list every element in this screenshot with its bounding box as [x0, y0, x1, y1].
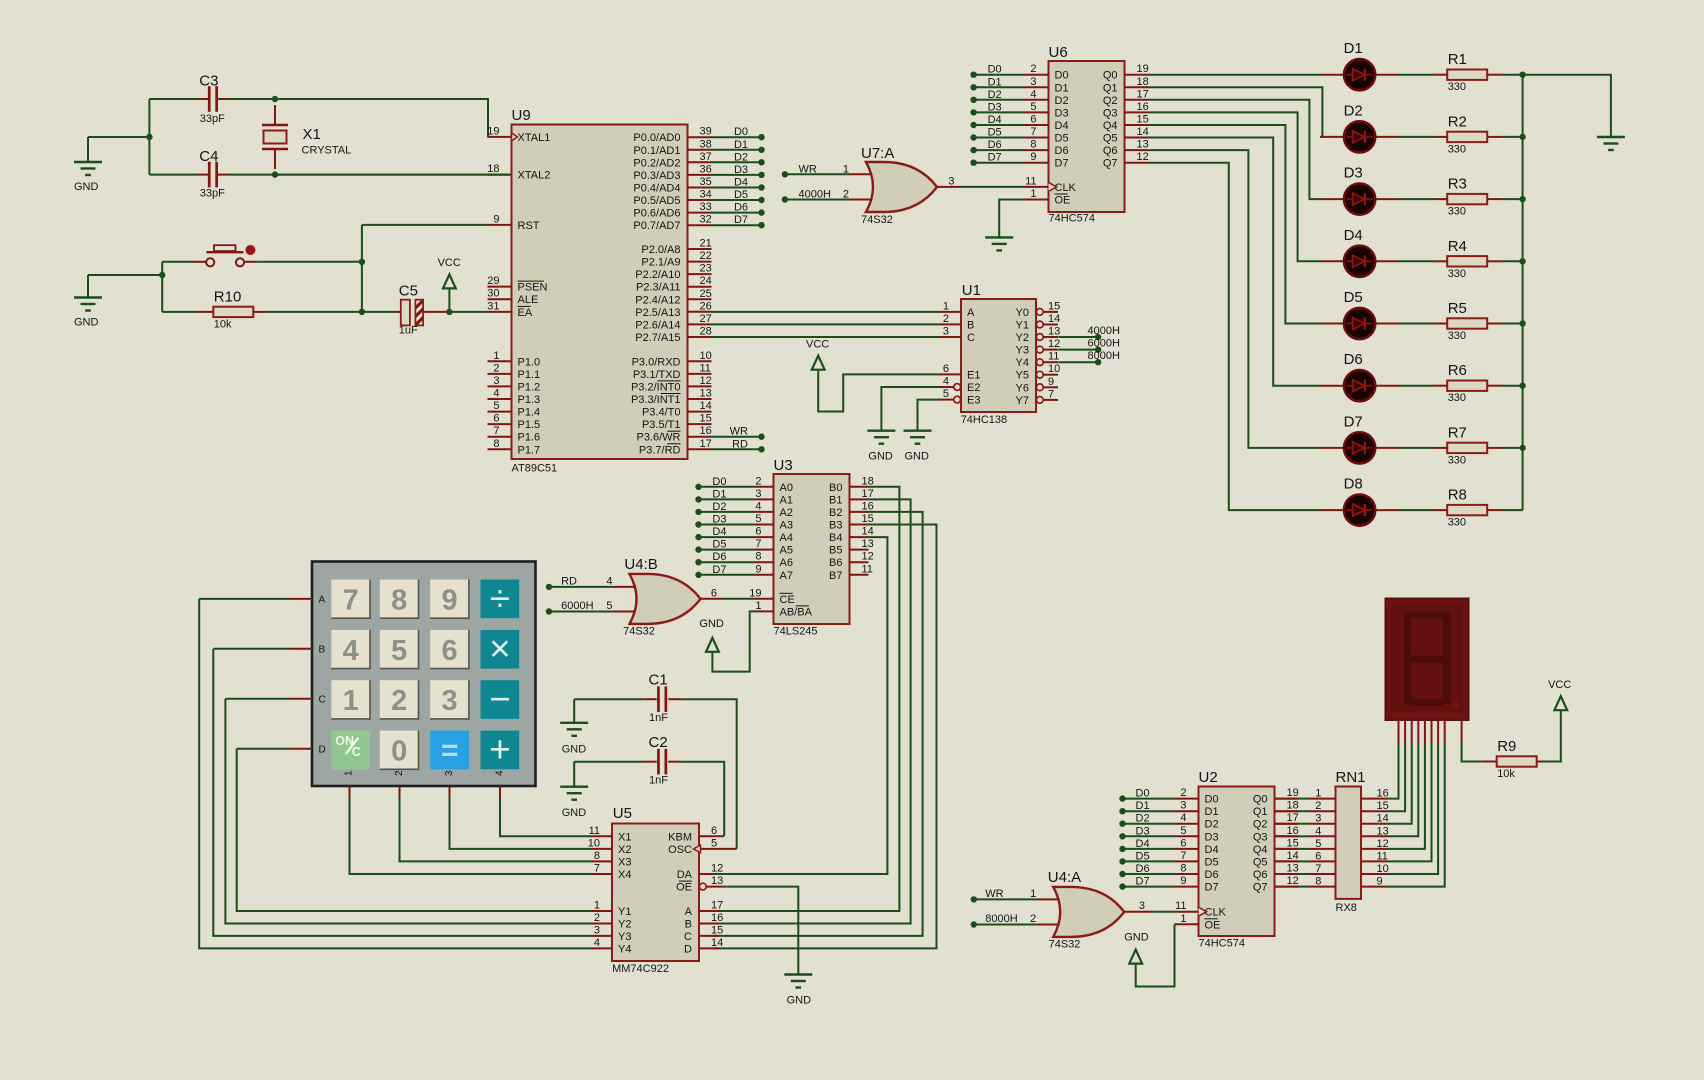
wire D1 to U2 [1123, 810, 1175, 812]
resistor R9 pin stubs [1482, 761, 1497, 763]
svg-text:A1: A1 [780, 494, 793, 506]
svg-text:2: 2 [943, 313, 949, 325]
wire GND1 stem [87, 137, 89, 162]
svg-text:1: 1 [1030, 888, 1036, 900]
svg-text:Y1: Y1 [618, 906, 631, 918]
svg-text:25: 25 [700, 288, 712, 300]
svg-text:B3: B3 [829, 520, 842, 532]
junction rail R3 [1519, 196, 1525, 202]
svg-text:P3.6/WR: P3.6/WR [636, 432, 680, 444]
keypad row pin stub B [289, 648, 312, 650]
svg-text:39: 39 [700, 126, 712, 138]
wire D2 to U2 [1123, 823, 1175, 825]
svg-text:16: 16 [700, 425, 712, 437]
svg-text:D0: D0 [1205, 794, 1219, 806]
svg-text:6: 6 [943, 363, 949, 375]
svg-text:P2.3/A11: P2.3/A11 [636, 282, 680, 294]
crystal X1 [262, 125, 288, 149]
svg-text:2: 2 [493, 362, 499, 374]
svg-text:8: 8 [391, 584, 407, 616]
svg-text:X1: X1 [618, 831, 631, 843]
svg-text:B2: B2 [829, 507, 842, 519]
resistor R3 [1447, 194, 1487, 204]
svg-text:8: 8 [1030, 139, 1036, 151]
svg-text:11: 11 [1175, 900, 1186, 912]
svg-text:1: 1 [594, 900, 600, 912]
svg-text:A0: A0 [780, 482, 793, 494]
7seg pin 5 stub [1424, 720, 1426, 745]
svg-text:VCC: VCC [1548, 679, 1571, 691]
LED D8 pin stubs [1320, 509, 1344, 511]
svg-text:A6: A6 [780, 557, 793, 569]
wire P0.0 net D0 [712, 136, 762, 138]
7seg pin 1 stub [1398, 720, 1400, 745]
svg-text:33: 33 [700, 201, 712, 213]
svg-text:2: 2 [1315, 800, 1321, 812]
wire LED common rail [1522, 75, 1524, 510]
svg-text:P0.4/AD4: P0.4/AD4 [633, 183, 680, 195]
svg-text:1nF: 1nF [649, 712, 668, 724]
svg-text:8: 8 [594, 850, 600, 862]
node D2 (U2) [1119, 821, 1125, 827]
svg-text:Q4: Q4 [1103, 120, 1118, 132]
wire P0.1 net D1 [712, 149, 762, 151]
svg-text:R9: R9 [1497, 738, 1516, 755]
wire LED D6 to R6 [1399, 385, 1432, 387]
svg-text:P3.3/INT1: P3.3/INT1 [631, 394, 681, 406]
svg-text:P0.2/AD2: P0.2/AD2 [633, 157, 680, 169]
svg-text:74S32: 74S32 [861, 214, 893, 226]
svg-text:P0.6/AD6: P0.6/AD6 [633, 208, 680, 220]
node D6 (U9) [758, 209, 764, 215]
node D4 (U2) [1119, 846, 1125, 852]
wire C3 row left segment [149, 98, 197, 100]
wire node to XTAL2 pin (overlay) [275, 174, 510, 176]
wire D4 to U6 [974, 124, 1025, 126]
svg-text:P3.1/TXD: P3.1/TXD [633, 369, 681, 381]
wire LED D4 to R4 [1399, 260, 1432, 262]
wire RD to U4:B pin 4 [549, 586, 614, 588]
svg-text:EA: EA [518, 307, 533, 319]
svg-text:5: 5 [1180, 825, 1186, 837]
svg-text:Y0: Y0 [1016, 307, 1029, 319]
vcc arrow (EA) [443, 274, 456, 288]
svg-text:CLK: CLK [1205, 907, 1227, 919]
svg-text:D2: D2 [1055, 95, 1069, 107]
svg-text:17: 17 [862, 488, 874, 500]
wire D6 to U6 [974, 149, 1025, 151]
wire D4 to U2 [1123, 848, 1175, 850]
svg-text:D4: D4 [1344, 227, 1363, 244]
svg-text:2: 2 [594, 912, 600, 924]
node WR (U4:A input) [971, 896, 977, 902]
svg-text:10k: 10k [1497, 768, 1515, 780]
svg-text:U3: U3 [774, 457, 793, 474]
U2 Q3 / RN1 stubs [1275, 835, 1299, 837]
RN1 right stub 9 [1361, 886, 1387, 888]
wire U2 Q0 to RN1 pin 1 [1299, 798, 1310, 800]
svg-text:XTAL2: XTAL2 [518, 170, 551, 182]
svg-text:B7: B7 [829, 570, 842, 582]
7seg common pin stub [1461, 720, 1463, 745]
svg-text:P3.0/RXD: P3.0/RXD [632, 356, 681, 368]
svg-text:74HC138: 74HC138 [961, 414, 1007, 426]
svg-text:14: 14 [700, 400, 712, 412]
svg-text:3: 3 [1030, 76, 1036, 88]
node D1 (U9) [758, 147, 764, 153]
wire keypad row C horizontal [225, 698, 289, 700]
svg-text:A: A [319, 594, 326, 605]
ground symbol (U1 E3) [904, 431, 932, 444]
wire keypad row B to U5 Y3 [213, 649, 592, 936]
svg-text:A7: A7 [780, 570, 793, 582]
wire U5 OE to ground [727, 887, 799, 975]
capacitor C4 pin stubs [197, 174, 209, 176]
node D0 (U6) [970, 72, 976, 78]
capacitor C4 [208, 162, 218, 188]
wire D7 to U3 [699, 574, 755, 576]
svg-text:CE: CE [780, 594, 795, 606]
svg-text:OE: OE [1055, 195, 1071, 207]
svg-text:330: 330 [1448, 268, 1466, 280]
wire C1 to U5 OSC [680, 699, 736, 849]
wire keypad row D horizontal [237, 748, 289, 750]
node 4000H (U1) [1095, 334, 1101, 340]
svg-text:C: C [684, 931, 692, 943]
wire C3 left + left vertical [88, 136, 149, 138]
svg-text:P2.4/A12: P2.4/A12 [635, 294, 680, 306]
wire U1 Y4 net 8000H [1058, 361, 1098, 363]
svg-text:32: 32 [700, 214, 712, 226]
svg-text:GND: GND [74, 181, 99, 193]
svg-text:31: 31 [487, 300, 499, 312]
svg-text:15: 15 [1287, 837, 1299, 849]
U2 Q7 / RN1 stubs [1275, 886, 1299, 888]
resistor R8 [1447, 505, 1487, 515]
svg-text:X1: X1 [303, 126, 321, 143]
wire RN1 pin 15 to 7seg [1387, 744, 1405, 811]
decoder U1 [939, 299, 1060, 412]
svg-text:D3: D3 [1055, 107, 1069, 119]
svg-text:15: 15 [1048, 300, 1060, 312]
svg-text:P3.4/T0: P3.4/T0 [642, 407, 681, 419]
svg-text:C2: C2 [649, 734, 668, 751]
capacitor C2 pin stubs [645, 761, 657, 763]
svg-text:5: 5 [711, 837, 717, 849]
wire keypad column 2 to U5 X3 [400, 798, 593, 862]
svg-text:R1: R1 [1448, 51, 1467, 68]
node RD (U4:B input) [546, 584, 552, 590]
wire D3 to U6 [974, 111, 1025, 113]
resistor R10 [213, 307, 253, 317]
wire GND2 stem [87, 275, 89, 298]
wire R9 to VCC [1544, 710, 1561, 761]
node D7 (U3) [695, 572, 701, 578]
svg-text:74S32: 74S32 [1049, 939, 1081, 951]
svg-text:E2: E2 [967, 382, 980, 394]
capacitor C5 [401, 300, 423, 326]
svg-text:30: 30 [487, 288, 499, 300]
svg-text:2: 2 [755, 475, 761, 487]
svg-text:C3: C3 [199, 73, 218, 90]
svg-text:C5: C5 [399, 283, 418, 300]
wire to R10 [162, 311, 196, 313]
svg-text:9: 9 [442, 584, 458, 616]
vcc arrow (U1 E1) [812, 356, 825, 370]
svg-text:GND: GND [1124, 932, 1149, 944]
svg-text:Q5: Q5 [1103, 133, 1118, 145]
svg-text:D2: D2 [1205, 819, 1219, 831]
svg-text:AB/BA: AB/BA [780, 606, 813, 618]
node D4 (U6) [970, 122, 976, 128]
U2 Q2 / RN1 stubs [1275, 823, 1299, 825]
wire VCC stem (EA) [448, 287, 450, 312]
svg-text:21: 21 [700, 238, 712, 250]
keypad key 4 [331, 630, 370, 669]
node D5 (U6) [970, 134, 976, 140]
svg-text:12: 12 [862, 551, 874, 563]
svg-text:Y2: Y2 [1016, 332, 1029, 344]
microcontroller U9 [487, 125, 712, 460]
or-gate U7:A [866, 162, 937, 212]
svg-text:Q3: Q3 [1253, 831, 1268, 843]
svg-text:D6: D6 [1205, 869, 1219, 881]
svg-text:15: 15 [711, 924, 723, 936]
svg-text:D5: D5 [1055, 133, 1069, 145]
wire vertical C3-C4 link [148, 99, 150, 175]
wire D5 to U3 [699, 549, 755, 551]
svg-text:P2.7/A15: P2.7/A15 [635, 332, 680, 344]
wire U7:A out to U6 CLK [961, 186, 1025, 188]
svg-text:P1.1: P1.1 [518, 369, 541, 381]
keypad column pin stub 4 [499, 786, 501, 798]
svg-text:3: 3 [444, 770, 455, 776]
resistor R4 [1447, 256, 1487, 266]
wire D1 to U3 [699, 498, 755, 500]
svg-text:13: 13 [1048, 326, 1060, 338]
wire D0 to U6 [974, 74, 1025, 76]
keypad key 3 [430, 680, 469, 719]
svg-text:R8: R8 [1448, 487, 1467, 504]
resistor R4 pin stubs [1432, 260, 1447, 262]
wire LED D7 to R7 [1399, 447, 1432, 449]
crystal X1 pins [274, 105, 276, 125]
svg-text:KBM: KBM [668, 831, 692, 843]
svg-text:10: 10 [700, 350, 712, 362]
svg-text:35: 35 [700, 176, 712, 188]
svg-text:D3: D3 [1344, 165, 1363, 182]
svg-text:330: 330 [1448, 206, 1466, 218]
svg-text:B6: B6 [829, 557, 842, 569]
svg-text:Q7: Q7 [1253, 882, 1268, 894]
svg-text:D1: D1 [734, 139, 748, 151]
svg-text:4: 4 [1030, 88, 1036, 100]
svg-text:X4: X4 [618, 869, 631, 881]
wire 8000H to U4:A pin 2 [974, 924, 1037, 926]
svg-text:2: 2 [1030, 913, 1036, 925]
keypad key 2 [380, 680, 419, 719]
svg-text:XTAL1: XTAL1 [518, 132, 551, 144]
svg-text:36: 36 [700, 163, 712, 175]
wire C1 left [574, 698, 645, 700]
svg-text:330: 330 [1448, 517, 1466, 529]
svg-text:P3.7/RD: P3.7/RD [639, 444, 681, 456]
wire C5 to EA pin [447, 311, 488, 313]
svg-text:CRYSTAL: CRYSTAL [302, 145, 352, 157]
wire U2 Q5 to RN1 pin 6 [1299, 860, 1310, 862]
wire RST vertical [361, 225, 363, 312]
node D5 (U3) [695, 546, 701, 552]
svg-text:VCC: VCC [806, 339, 829, 351]
svg-text:19: 19 [1137, 63, 1149, 75]
junction RST-button [359, 259, 365, 265]
svg-text:14: 14 [1287, 850, 1299, 862]
svg-text:P2.5/A13: P2.5/A13 [635, 307, 680, 319]
svg-text:B: B [685, 919, 692, 931]
LED D2 pin stubs [1320, 136, 1344, 138]
wire RN1 pin 16 to 7seg [1387, 744, 1399, 799]
svg-text:AT89C51: AT89C51 [512, 463, 558, 475]
svg-text:6: 6 [711, 587, 717, 599]
wire node to XTAL1 pin [275, 99, 488, 137]
svg-text:1nF: 1nF [649, 775, 668, 787]
svg-text:3: 3 [1139, 900, 1145, 912]
svg-text:10k: 10k [214, 318, 232, 330]
svg-text:12: 12 [1048, 338, 1060, 350]
svg-text:8: 8 [755, 551, 761, 563]
svg-text:P0.5/AD5: P0.5/AD5 [633, 195, 680, 207]
svg-text:D7: D7 [734, 214, 748, 226]
7seg pin 6 stub [1431, 720, 1433, 745]
LED D5 pin stubs [1320, 323, 1344, 325]
wire C2 gnd stem [573, 762, 575, 787]
svg-text:Q7: Q7 [1103, 158, 1118, 170]
node D2 (U9) [758, 159, 764, 165]
XTAL1 input arrow [512, 133, 518, 141]
svg-text:Y3: Y3 [1016, 345, 1029, 357]
U7:A pin 2 stub [850, 199, 872, 201]
U4:B output stub (pin 6) [701, 598, 723, 600]
wire D3 to U3 [699, 524, 755, 526]
svg-text:19: 19 [749, 587, 761, 599]
svg-text:3: 3 [1180, 800, 1186, 812]
wire Q3 to LED D4 [1149, 112, 1321, 261]
svg-text:GND: GND [562, 807, 587, 819]
keypad panel [312, 562, 536, 787]
svg-text:×: × [489, 628, 511, 669]
svg-text:Y4: Y4 [1016, 357, 1029, 369]
svg-text:X2: X2 [618, 844, 631, 856]
svg-text:DA: DA [677, 869, 693, 881]
7seg pin 7 stub [1437, 720, 1439, 745]
capacitor C3 [208, 86, 218, 112]
wire U2 Q1 to RN1 pin 2 [1299, 810, 1310, 812]
svg-text:1: 1 [1315, 788, 1321, 800]
svg-text:RST: RST [518, 220, 540, 232]
7seg pin 2 stub [1404, 720, 1406, 745]
svg-text:B: B [319, 644, 326, 655]
svg-text:13: 13 [862, 538, 874, 550]
wire node to C5 [362, 311, 397, 313]
wire P2.7 to U1 C [712, 336, 940, 338]
vcc arrow (R9) [1554, 696, 1567, 710]
ground symbol (LED rail) [1597, 137, 1625, 150]
svg-text:26: 26 [700, 300, 712, 312]
resistor R7 pin stubs [1432, 447, 1447, 449]
keypad encoder U5 [588, 824, 737, 962]
svg-text:P2.2/A10: P2.2/A10 [635, 269, 680, 281]
XTAL2 pin stub (under wire) [488, 174, 512, 176]
RN1 right stub 11 [1361, 860, 1387, 862]
svg-text:WR: WR [985, 888, 1003, 900]
wire U2 Q2 to RN1 pin 3 [1299, 823, 1310, 825]
keypad key ON/C [331, 731, 370, 770]
U4:A output stub (pin 3) [1124, 911, 1152, 913]
wire R8 to rail [1502, 509, 1522, 511]
svg-text:R5: R5 [1448, 300, 1467, 317]
svg-text:Y4: Y4 [618, 943, 631, 955]
wire LED D1 to R1 [1399, 74, 1432, 76]
wire gnd arrow to U3 AB/BA [712, 611, 754, 671]
LED D4 pin stubs [1320, 260, 1344, 262]
svg-text:19: 19 [1287, 787, 1299, 799]
svg-text:P2.0/A8: P2.0/A8 [641, 244, 680, 256]
svg-text:24: 24 [700, 275, 712, 287]
svg-text:6000H: 6000H [561, 600, 593, 612]
svg-text:C4: C4 [199, 148, 218, 165]
svg-text:PSEN: PSEN [518, 282, 548, 294]
svg-text:9: 9 [1048, 376, 1054, 388]
push button [206, 245, 244, 266]
wire U1 Y2 net 4000H [1058, 336, 1098, 338]
svg-text:8: 8 [493, 438, 499, 450]
resistor R2 pin stubs [1432, 136, 1447, 138]
junction reset-gnd [159, 272, 165, 278]
wire RN1 pin 9 to 7seg [1387, 744, 1445, 887]
svg-text:Y5: Y5 [1016, 370, 1029, 382]
svg-text:38: 38 [700, 138, 712, 150]
node D3 (U3) [695, 521, 701, 527]
svg-text:330: 330 [1448, 392, 1466, 404]
svg-text:X3: X3 [618, 856, 631, 868]
wire P0.5 net D5 [712, 199, 762, 201]
wire D5 to U2 [1123, 860, 1175, 862]
svg-text:8: 8 [1315, 876, 1321, 888]
wire R10 to node [266, 311, 362, 313]
wire R1 to rail [1502, 74, 1522, 76]
U2 Q0 / RN1 stubs [1275, 798, 1299, 800]
svg-text:4: 4 [606, 575, 612, 587]
wire P3.7 net RD [712, 448, 762, 450]
wire keypad column 1 to U5 X4 [350, 798, 593, 875]
resistor R3 pin stubs [1432, 198, 1447, 200]
svg-text:U4:A: U4:A [1048, 869, 1081, 886]
wire RN1 pin 14 to 7seg [1387, 744, 1412, 824]
svg-text:17: 17 [700, 438, 712, 450]
wire C2 left [574, 761, 645, 763]
svg-text:P1.2: P1.2 [518, 381, 541, 393]
7seg pin 4 stub [1417, 720, 1419, 745]
keypad key 9 [430, 580, 469, 619]
svg-text:D2: D2 [1344, 102, 1363, 119]
wire U3 B3 to U5 D [712, 525, 936, 949]
svg-text:D2: D2 [734, 151, 748, 163]
svg-text:B0: B0 [829, 482, 842, 494]
svg-text:6000H: 6000H [1088, 338, 1120, 350]
keypad key 7 [331, 580, 370, 619]
svg-text:7: 7 [343, 584, 359, 616]
wire P0.3 net D3 [712, 174, 762, 176]
